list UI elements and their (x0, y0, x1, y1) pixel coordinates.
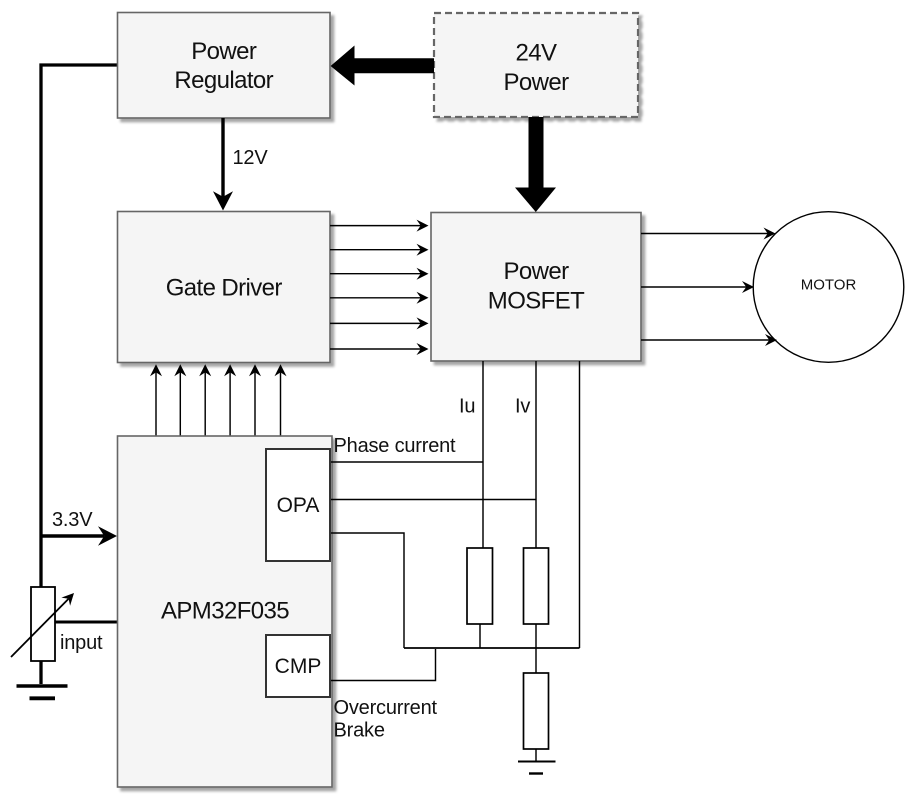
shunt resistor R1 (467, 548, 493, 624)
wire OPA to bus (331, 533, 404, 648)
wire 12V arrow regulator to gate driver (213, 118, 233, 211)
wire pwm 1 APM to gate driver (150, 364, 162, 436)
wire gate signal 5 (330, 317, 429, 329)
ground right (518, 762, 556, 774)
wire sense bus (404, 647, 580, 649)
potentiometer RV1 (11, 587, 74, 661)
label node Iu (459, 396, 475, 418)
wire pwm 4 (224, 364, 236, 436)
wire gate signal 3 (330, 268, 429, 280)
power regulator U1 (118, 13, 331, 119)
power MOSFET bridge (431, 213, 641, 362)
comparator block CMP (266, 635, 330, 697)
svg-text:Iu: Iu (459, 396, 475, 418)
svg-text:Regulator: Regulator (174, 67, 273, 94)
wire gate signal 4 (330, 292, 429, 304)
wire W sense from MOSFET (579, 361, 581, 648)
wire phase W to motor (641, 334, 777, 346)
wire phase U to motor (641, 228, 776, 240)
label Phase current (334, 435, 457, 457)
svg-text:OPA: OPA (277, 494, 320, 517)
wire gate signal 2 (330, 244, 429, 256)
wire input (RV1 to APM32F035) (55, 621, 117, 624)
ground left (17, 686, 68, 698)
wire gate signal 1 (330, 220, 429, 232)
wire thick arrow 24V to power regulator (331, 46, 434, 86)
svg-text:3.3V: 3.3V (52, 509, 93, 531)
label input (60, 632, 103, 654)
wire pwm 6 (275, 364, 287, 436)
shunt resistor R3 (524, 673, 549, 749)
svg-text:Power: Power (503, 69, 569, 96)
wire OPA phase current input 2 (331, 499, 536, 501)
svg-text:12V: 12V (233, 147, 269, 169)
label 12V (233, 147, 269, 169)
svg-text:Power: Power (191, 38, 257, 65)
wire pwm 5 (249, 364, 261, 436)
wire pwm 3 (199, 364, 211, 436)
svg-text:Phase current: Phase current (334, 435, 457, 457)
wire 3.3V arrow into APM32F035 (41, 526, 117, 545)
wire pwm 2 (174, 364, 186, 436)
gate driver U3 (118, 212, 331, 363)
svg-text:Power: Power (503, 258, 569, 285)
motor M1 (753, 212, 904, 363)
svg-text:Iv: Iv (515, 396, 530, 418)
svg-text:APM32F035: APM32F035 (161, 598, 289, 625)
wire CMP overcurrent (331, 649, 436, 681)
wire thick arrow 24V to MOSFET (515, 117, 556, 212)
op-amp block OPA (266, 449, 330, 561)
svg-text:Overcurrent: Overcurrent (334, 697, 438, 719)
wire R1 to bus (479, 624, 481, 648)
label Overcurrent Brake (334, 697, 438, 742)
svg-text:Gate Driver: Gate Driver (166, 275, 283, 302)
svg-text:input: input (60, 632, 103, 654)
wire gate signal 6 (330, 343, 429, 355)
svg-text:CMP: CMP (275, 655, 322, 678)
wire 3.3V left rail (41, 65, 117, 684)
wire Iv sense from MOSFET (535, 361, 537, 548)
MCU APM32F035 (118, 436, 333, 787)
svg-text:MOSFET: MOSFET (488, 288, 585, 315)
label 3.3V (52, 509, 93, 531)
label node Iv (515, 396, 530, 418)
svg-text:MOTOR: MOTOR (801, 277, 857, 294)
wire phase V to motor (641, 281, 754, 293)
wire Iu sense from MOSFET (482, 361, 484, 548)
24V power source (434, 13, 638, 117)
shunt resistor R2 (524, 548, 549, 624)
wire R3 to ground (535, 749, 537, 762)
svg-text:24V: 24V (516, 40, 557, 67)
wire OPA phase current input 1 (331, 461, 483, 463)
svg-text:Brake: Brake (334, 720, 385, 742)
wire R2 to R3 (535, 624, 537, 673)
